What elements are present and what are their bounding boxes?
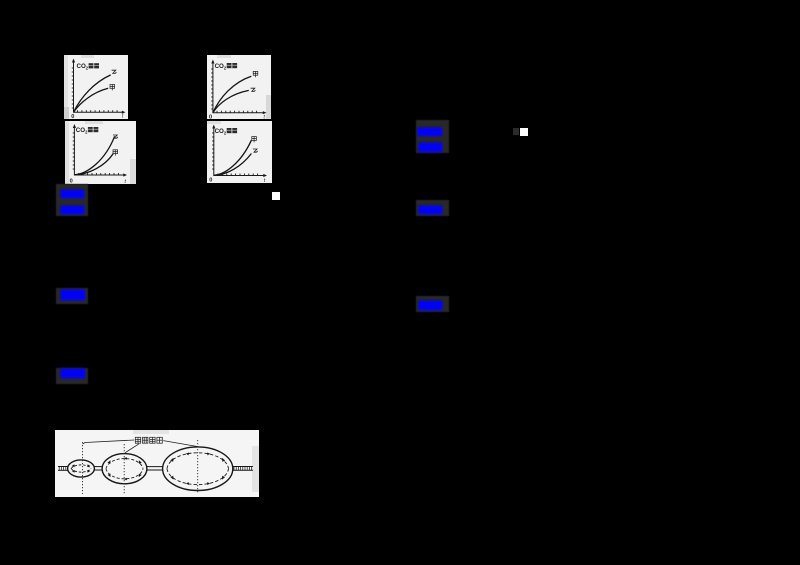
- svg-text:CO: CO: [77, 63, 86, 70]
- svg-text:0: 0: [209, 115, 212, 120]
- svg-text:0: 0: [71, 114, 74, 119]
- svg-text:CO: CO: [76, 127, 85, 134]
- svg-text:CO: CO: [215, 63, 224, 70]
- svg-text:CO: CO: [215, 128, 224, 135]
- svg-text:0: 0: [209, 178, 212, 184]
